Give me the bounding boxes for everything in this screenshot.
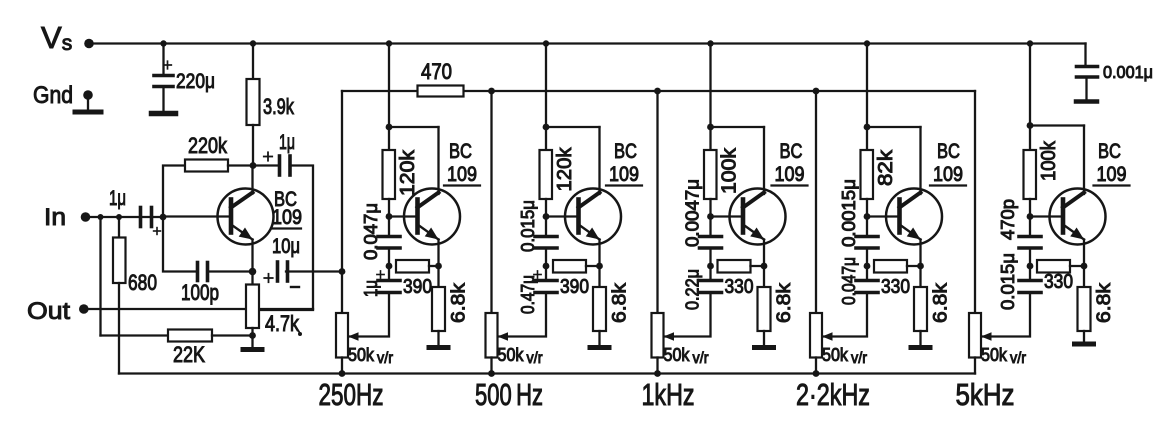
svg-text:10μ: 10μ	[272, 235, 300, 258]
svg-text:109: 109	[447, 163, 477, 186]
svg-text:0.047μ: 0.047μ	[361, 203, 381, 260]
svg-text:330: 330	[881, 276, 910, 298]
svg-text:120k: 120k	[554, 146, 576, 191]
svg-text:3.9k: 3.9k	[263, 94, 295, 119]
svg-text:22K: 22K	[173, 342, 205, 367]
svg-text:50k: 50k	[348, 345, 375, 365]
svg-text:680: 680	[128, 270, 157, 295]
svg-text:0.22μ: 0.22μ	[683, 269, 703, 310]
svg-text:109: 109	[1097, 163, 1127, 186]
svg-text:In: In	[44, 204, 66, 231]
svg-text:6.8k: 6.8k	[931, 282, 952, 323]
svg-text:100k: 100k	[719, 147, 741, 194]
svg-text:v/r: v/r	[1010, 350, 1027, 367]
svg-text:100p: 100p	[181, 280, 219, 305]
svg-text:109: 109	[609, 163, 639, 186]
svg-text:500 Hz: 500 Hz	[475, 377, 543, 412]
svg-text:0.0047μ: 0.0047μ	[683, 179, 703, 247]
svg-text:100k: 100k	[1038, 140, 1060, 181]
svg-text:0.001μ: 0.001μ	[1103, 62, 1153, 82]
svg-text:1μ: 1μ	[361, 280, 381, 297]
svg-text:v/r: v/r	[527, 350, 544, 367]
svg-text:390: 390	[560, 276, 589, 298]
svg-text:330: 330	[1044, 271, 1073, 293]
svg-text:109: 109	[272, 206, 302, 229]
svg-text:BC: BC	[780, 140, 803, 163]
svg-text:Gnd: Gnd	[33, 82, 73, 109]
svg-text:50k: 50k	[664, 345, 691, 365]
svg-text:1kHz: 1kHz	[642, 377, 695, 412]
svg-text:220k: 220k	[188, 133, 228, 158]
svg-text:v/r: v/r	[851, 350, 868, 367]
svg-text:2·2kHz: 2·2kHz	[796, 377, 870, 412]
svg-text:220μ: 220μ	[176, 70, 215, 93]
svg-text:330: 330	[725, 276, 754, 298]
svg-text:109: 109	[775, 163, 805, 186]
svg-text:82k: 82k	[875, 149, 897, 186]
svg-text:6.8k: 6.8k	[610, 282, 631, 323]
svg-text:470p: 470p	[998, 199, 1018, 240]
svg-text:0.047μ: 0.047μ	[839, 257, 859, 305]
svg-text:250Hz: 250Hz	[319, 377, 384, 412]
svg-text:470: 470	[421, 59, 452, 84]
svg-text:v/r: v/r	[693, 350, 710, 367]
svg-text:BC: BC	[1098, 140, 1121, 163]
svg-text:120k: 120k	[397, 149, 419, 196]
svg-text:50k: 50k	[981, 345, 1008, 365]
svg-text:5kHz: 5kHz	[956, 377, 1015, 412]
svg-text:1μ: 1μ	[279, 131, 295, 154]
svg-text:50k: 50k	[498, 345, 525, 365]
svg-text:6.8k: 6.8k	[449, 282, 470, 323]
svg-text:v/r: v/r	[377, 350, 394, 367]
svg-text:0.0015μ: 0.0015μ	[839, 179, 859, 247]
svg-text:BC: BC	[937, 140, 960, 163]
svg-text:0.015μ: 0.015μ	[998, 253, 1018, 310]
svg-text:1μ: 1μ	[109, 187, 126, 210]
svg-text:BC: BC	[449, 140, 472, 163]
svg-text:390: 390	[403, 276, 432, 298]
svg-text:109: 109	[933, 163, 963, 186]
svg-text:Out: Out	[27, 298, 70, 325]
svg-text:BC: BC	[614, 140, 637, 163]
svg-text:50k: 50k	[822, 345, 849, 365]
svg-text:6.8k: 6.8k	[774, 282, 795, 323]
svg-text:0.47μ: 0.47μ	[518, 275, 538, 314]
svg-text:4.7k: 4.7k	[265, 311, 300, 336]
svg-text:0.015μ: 0.015μ	[518, 200, 538, 252]
svg-text:6.8k: 6.8k	[1094, 282, 1115, 323]
